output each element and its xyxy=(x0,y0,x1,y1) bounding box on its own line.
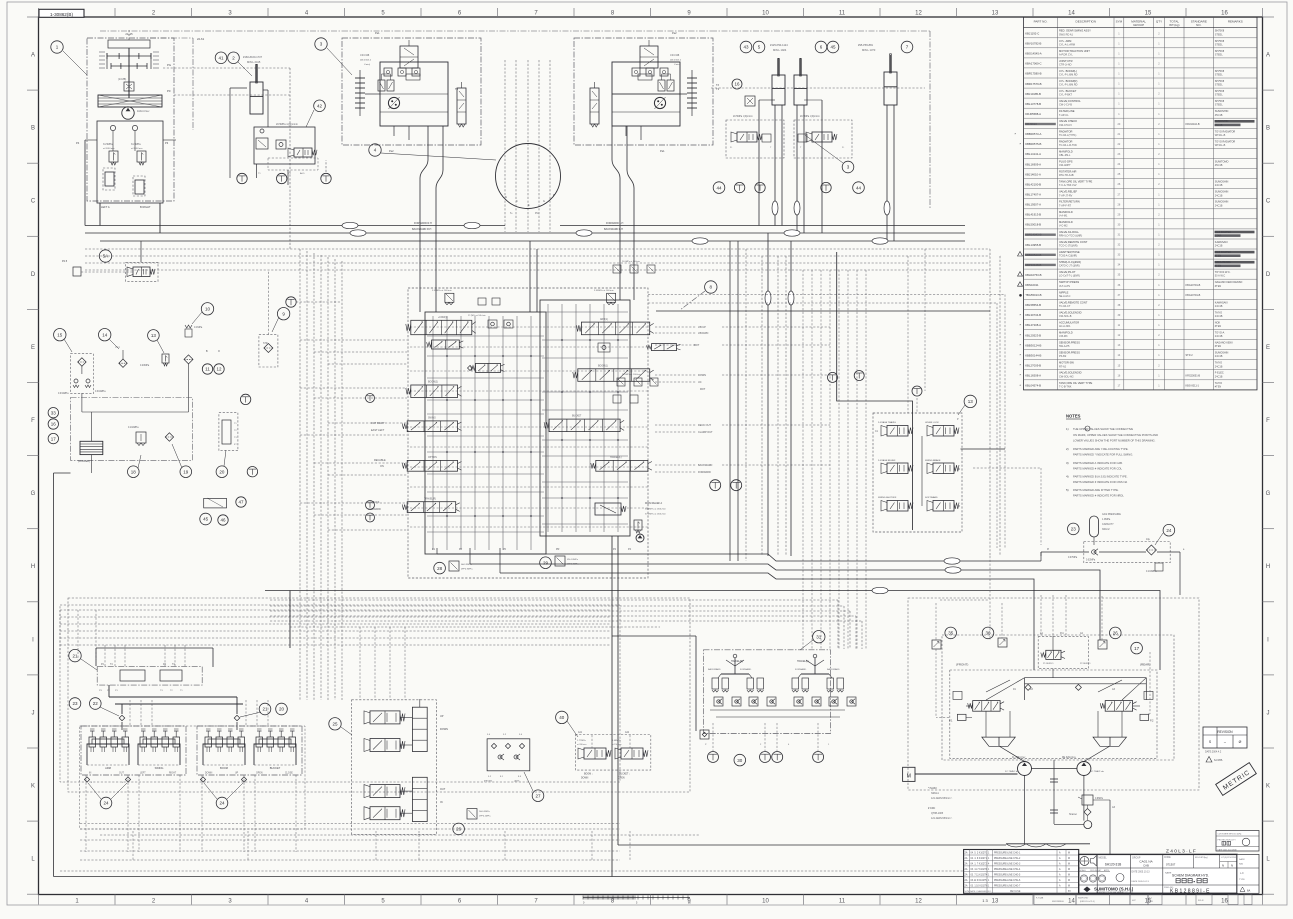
svg-text:D: D xyxy=(31,272,36,278)
svg-text:K B 1 2 8 8 9 I - E: K B 1 2 8 8 9 I - E xyxy=(1170,888,1210,894)
pump assembly balloons xyxy=(945,627,957,639)
svg-text:TBG55013-B: TBG55013-B xyxy=(1025,293,1041,297)
pilot reducing valve right xyxy=(607,293,616,302)
piston pumps xyxy=(1005,756,1104,829)
svg-text:SUMOSHIN: SUMOSHIN xyxy=(1215,191,1229,194)
svg-text:WT21L-B: WT21L-B xyxy=(1215,134,1226,137)
svg-text:KBL27009-B: KBL27009-B xyxy=(1025,364,1041,368)
svg-text:BACKWARD: BACKWARD xyxy=(708,668,721,671)
svg-text:BOOM(2): BOOM(2) xyxy=(428,382,438,384)
svg-text:OPTION: OPTION xyxy=(428,457,437,459)
svg-text:A-P.DR.CYL: A-P.DR.CYL xyxy=(1059,53,1073,56)
svg-text:TOYO RADIATOR: TOYO RADIATOR xyxy=(1215,130,1236,133)
load check right xyxy=(652,344,677,351)
svg-text:ARM(1): ARM(1) xyxy=(600,318,608,321)
balloon item 8 xyxy=(705,281,717,293)
svg-text:TCJ-R-CT: TCJ-R-CT xyxy=(1059,305,1071,308)
svg-text:#TEN: #TEN xyxy=(1215,345,1222,348)
svg-text:28: 28 xyxy=(437,566,443,571)
svg-text:(COOLER): (COOLER) xyxy=(78,460,90,463)
svg-text:KBJ14010-A: KBJ14010-A xyxy=(1025,172,1041,176)
svg-text:SUMOSHIN: SUMOSHIN xyxy=(1215,110,1229,113)
svg-text:18: 18 xyxy=(131,469,137,474)
svg-text:CYL-P-L-BM.RD: CYL-P-L-BM.RD xyxy=(1059,74,1078,77)
svg-text:45: 45 xyxy=(830,45,836,50)
svg-text:KBG10791-B: KBG10791-B xyxy=(1186,284,1201,287)
svg-text:SWG RD A1: SWG RD A1 xyxy=(1059,33,1074,36)
main control valve right housing xyxy=(540,300,630,536)
svg-text:DATE 2005.10.15(S/N): DATE 2005.10.15(S/N) xyxy=(1218,848,1238,851)
svg-text:SWING BRAKE: SWING BRAKE xyxy=(925,459,941,462)
svg-text:2-STAGE RELIEF: 2-STAGE RELIEF xyxy=(878,459,896,462)
svg-text:03. 7.11 K10274: 03. 7.11 K10274 xyxy=(971,875,988,877)
pilot dashed bus lines xyxy=(85,249,1000,556)
svg-text:KBL14955-B: KBL14955-B xyxy=(1025,243,1041,247)
spool travel right xyxy=(411,320,472,334)
svg-text:KBH10753-B: KBH10753-B xyxy=(1025,273,1041,277)
svg-text:VALVE;PILOT: VALVE;PILOT xyxy=(1059,270,1076,274)
svg-text:RADIATOR: RADIATOR xyxy=(1059,139,1072,143)
solenoid valve block item 13 xyxy=(837,252,1005,532)
svg-text:N: N xyxy=(1231,864,1233,868)
svg-text:SWITCH PRESS: SWITCH PRESS xyxy=(1059,280,1079,284)
pump control housing item1 xyxy=(51,30,176,209)
svg-text:RIGHT: RIGHT xyxy=(169,773,177,775)
svg-text:#125-P90-1124: #125-P90-1124 xyxy=(770,43,788,47)
svg-text:TOYO-A: TOYO-A xyxy=(1215,332,1225,335)
pressure switch item 26 xyxy=(467,809,477,819)
mid dashed verticals to travel pilot xyxy=(803,270,866,650)
svg-text:KBL30734-B: KBL30734-B xyxy=(1025,313,1041,317)
svg-text:CYL. BOOM(L): CYL. BOOM(L) xyxy=(1059,69,1077,73)
svg-text:10μ: 10μ xyxy=(1146,538,1151,541)
title block right edge cells xyxy=(1237,854,1259,893)
svg-text:3.55MPa at 10L/min: 3.55MPa at 10L/min xyxy=(432,289,452,292)
svg-text:SUMOSHIN: SUMOSHIN xyxy=(1215,352,1229,355)
svg-text:44: 44 xyxy=(856,185,862,190)
svg-text:17: 17 xyxy=(1134,646,1140,651)
svg-text:23: 23 xyxy=(1071,527,1077,532)
svg-text:O: O xyxy=(218,350,220,353)
svg-text:* ISUZU: * ISUZU xyxy=(928,787,937,790)
svg-text:#TEN: #TEN xyxy=(1215,325,1222,328)
svg-text:STEEL: STEEL xyxy=(1215,94,1224,97)
svg-text:DECK OUT: DECK OUT xyxy=(698,424,711,427)
spool option xyxy=(407,460,457,471)
svg-text:ON MARK, UPPER VALUES SHOW THE: ON MARK, UPPER VALUES SHOW THE CONNECTIV… xyxy=(1073,433,1158,437)
title block main xyxy=(1079,854,1237,894)
svg-text:04. 5. 2 K10270: 04. 5. 2 K10270 xyxy=(971,853,988,855)
svg-text:0N 4.0MPa: 0N 4.0MPa xyxy=(567,559,579,561)
svg-text:43: 43 xyxy=(743,45,749,50)
svg-text:K: K xyxy=(1266,784,1270,790)
svg-text:VALVE CHECK: VALVE CHECK xyxy=(1059,119,1077,123)
cylinder feed lines xyxy=(732,79,894,241)
svg-text:MIN.L 1924: MIN.L 1924 xyxy=(773,48,787,52)
accumulator item 23 xyxy=(1068,513,1122,537)
svg-text:WT21L-B: WT21L-B xyxy=(1215,144,1226,147)
svg-text:KBL04574-B: KBL04574-B xyxy=(1025,384,1041,388)
svg-text:CYL-P-L-BM.RD: CYL-P-L-BM.RD xyxy=(1059,84,1078,87)
svg-text:KBS-0011-1: KBS-0011-1 xyxy=(1186,384,1200,387)
pump delivery lines down to bus xyxy=(99,203,101,226)
svg-text:SUMOSHIN: SUMOSHIN xyxy=(1215,181,1229,184)
svg-text:KBG10791-B: KBG10791-B xyxy=(1186,294,1201,297)
spool swing xyxy=(407,421,457,432)
svg-text:(REAR): (REAR) xyxy=(1140,663,1150,667)
svg-text:UC: UC xyxy=(698,381,702,384)
spool travel left bank xyxy=(407,502,456,513)
svg-text:24C1B: 24C1B xyxy=(1215,365,1223,368)
svg-text:Pe1: Pe1 xyxy=(660,149,665,153)
svg-text:KBN10011: KBN10011 xyxy=(1025,283,1039,287)
svg-text:PARTS MARKED # INDICATE FOR CO: PARTS MARKED # INDICATE FOR COL xyxy=(1073,467,1122,471)
pilot valve cluster boom bucket xyxy=(197,726,302,852)
svg-text:(13.88): (13.88) xyxy=(118,77,126,81)
svg-text:2A: 2A xyxy=(965,884,968,887)
svg-text:13: 13 xyxy=(968,399,974,404)
svg-text:SH120-31B: SH120-31B xyxy=(1105,863,1121,867)
pump linkage details xyxy=(966,663,1146,762)
svg-text:VALVE;SOLENOID: VALVE;SOLENOID xyxy=(1059,310,1082,314)
pump assembly mid dashed box xyxy=(942,635,1174,760)
svg-text:E: E xyxy=(31,345,35,351)
svg-text:BUCKET: BUCKET xyxy=(270,766,281,770)
svg-text:15: 15 xyxy=(1145,11,1152,17)
svg-text:21: 21 xyxy=(72,653,78,658)
svg-text:M: M xyxy=(907,774,911,780)
svg-text:B: B xyxy=(1266,126,1270,132)
svg-text:PG: PG xyxy=(535,212,539,215)
svg-text:NAGANO KEIKI DENSO: NAGANO KEIKI DENSO xyxy=(1215,281,1243,284)
svg-text:04. 4. 6 K10271: 04. 4. 6 K10271 xyxy=(971,858,988,860)
svg-text:11: 11 xyxy=(205,367,210,372)
svg-text:A: A xyxy=(1266,53,1270,59)
svg-text:ROTATER;AIR: ROTATER;AIR xyxy=(1059,170,1076,174)
svg-text:CW-SOL-NG: CW-SOL-NG xyxy=(1059,375,1074,378)
svg-text:VALVE;RELIEF: VALVE;RELIEF xyxy=(1059,190,1077,194)
svg-text:i=43.348: i=43.348 xyxy=(360,54,370,57)
svg-text:42: 42 xyxy=(317,104,323,109)
valve block internal channels right xyxy=(542,304,628,532)
svg-text:DOWN: DOWN xyxy=(440,728,448,731)
gauges below valve block xyxy=(710,480,721,491)
svg-text:12: 12 xyxy=(915,11,922,17)
svg-text:#TEN: #TEN xyxy=(1215,285,1222,288)
svg-text:P0: P0 xyxy=(167,89,171,93)
svg-text:(KB12-10+C2.6): (KB12-10+C2.6) xyxy=(1080,901,1095,903)
svg-text:V-A-M1: V-A-M1 xyxy=(1059,214,1068,217)
svg-text:31.5MPa: 31.5MPa xyxy=(103,143,113,146)
svg-text:2A: 2A xyxy=(965,852,968,855)
svg-text:STEEL: STEEL xyxy=(1215,33,1224,36)
svg-text:P₁: P₁ xyxy=(730,147,732,149)
port test boxes 28 29 xyxy=(434,556,579,574)
svg-text:#95-P65-881: #95-P65-881 xyxy=(858,43,874,47)
svg-text:CAPACITY: CAPACITY xyxy=(1102,523,1114,526)
gauge port top xyxy=(286,297,296,307)
svg-text:KRS20051-B: KRS20051-B xyxy=(1186,374,1201,377)
svg-text:DATE:2004.4.2: DATE:2004.4.2 xyxy=(1205,751,1222,754)
bottom long dashed tails xyxy=(80,824,630,861)
svg-text:30: 30 xyxy=(737,758,743,763)
svg-text:DATE 2005.10.13: DATE 2005.10.13 xyxy=(1132,880,1150,883)
main control valve left housing xyxy=(425,312,546,554)
svg-text:TRAVEL(L): TRAVEL(L) xyxy=(610,456,622,459)
svg-text:FIG.N: FIG.N xyxy=(1198,900,1204,902)
svg-text:SH75X8: SH75X8 xyxy=(1215,30,1225,33)
svg-text:BUCKET ↓: BUCKET ↓ xyxy=(619,773,630,776)
svg-text:KBL14141-A: KBL14141-A xyxy=(1025,152,1041,156)
svg-text:SCALE: SCALE xyxy=(1080,869,1087,872)
svg-text:10: 10 xyxy=(762,899,769,905)
svg-text:DOWN: DOWN xyxy=(698,374,706,377)
svg-text:A6.5: A6.5 xyxy=(300,172,305,175)
svg-text:0.034MPa: 0.034MPa xyxy=(58,393,69,395)
manifold item 20 xyxy=(216,413,238,478)
svg-text:11: 11 xyxy=(839,899,846,905)
svg-text:NIPPLE: NIPPLE xyxy=(1059,290,1069,294)
svg-text:SH75X8: SH75X8 xyxy=(1215,100,1225,103)
revision stamp xyxy=(1203,727,1247,762)
svg-text:JIB DWN: JIB DWN xyxy=(698,332,708,335)
svg-text:CONSTRUCTION MACHINERY CO.,LTD: CONSTRUCTION MACHINERY CO.,LTD xyxy=(1096,891,1133,894)
svg-text:U.T.(S)12 NOTED: U.T.(S)12 NOTED xyxy=(1221,857,1237,859)
holding valve block item 42 xyxy=(254,100,325,175)
svg-text:MAIN RELIEF A: MAIN RELIEF A xyxy=(645,502,663,505)
svg-text:EAST LEFT: EAST LEFT xyxy=(371,429,385,432)
svg-text:20.5MPa at 110L/min: 20.5MPa at 110L/min xyxy=(622,373,641,376)
svg-text:OUT RIGHT: OUT RIGHT xyxy=(371,422,385,425)
svg-text:25: 25 xyxy=(332,722,338,727)
svg-text:SWING SHUTOFF: SWING SHUTOFF xyxy=(878,497,897,499)
svg-text:RECABLE: RECABLE xyxy=(374,459,386,462)
svg-text:SENSOR;PRESS: SENSOR;PRESS xyxy=(1059,341,1080,345)
valve block dashed pilot crossings xyxy=(410,327,648,527)
svg-text:WT.(kg): WT.(kg) xyxy=(1169,23,1179,27)
svg-text:M: M xyxy=(1068,864,1070,866)
svg-text:KBL19507-A: KBL19507-A xyxy=(1025,203,1041,207)
svg-text:1A 0.5MPa: 1A 0.5MPa xyxy=(479,810,490,813)
svg-text:KBV10782-B: KBV10782-B xyxy=(1025,42,1041,46)
svg-text:at 20L/min: at 20L/min xyxy=(577,743,586,746)
svg-text:20: 20 xyxy=(279,707,285,712)
svg-text:KBL16909-A: KBL16909-A xyxy=(1025,162,1041,166)
svg-text:F-ELEC: F-ELEC xyxy=(1215,372,1224,375)
svg-text:2A: 2A xyxy=(965,863,968,866)
svg-text:×1.1: ×1.1 xyxy=(115,346,120,349)
svg-text:PR: PR xyxy=(556,548,560,551)
svg-text:THE UPPER VALUES SHOW THE CONN: THE UPPER VALUES SHOW THE CONNECTIVE xyxy=(1073,427,1133,431)
svg-text:1FF0.2MPa: 1FF0.2MPa xyxy=(479,816,491,818)
svg-text:PRESSURE-LINE CHG-2: PRESSURE-LINE CHG-2 xyxy=(994,858,1021,860)
svg-text:0.304MPa: 0.304MPa xyxy=(95,391,106,393)
svg-text:27 (MPa at 10L/min: 27 (MPa at 10L/min xyxy=(468,314,485,317)
svg-text:CYL. ARM: CYL. ARM xyxy=(1059,39,1071,43)
svg-text:4): 4) xyxy=(1066,475,1069,479)
pump lines into valve block xyxy=(420,226,634,313)
svg-text:ARM: ARM xyxy=(105,766,111,770)
drawing number box top-left xyxy=(39,9,84,17)
svg-text:TOYO R.W.C.: TOYO R.W.C. xyxy=(1215,271,1231,274)
svg-text:PG: PG xyxy=(167,63,171,67)
svg-text:QT88-1005: QT88-1005 xyxy=(931,812,944,815)
svg-text:LEVER LOCK: LEVER LOCK xyxy=(925,422,939,424)
valve block port labels xyxy=(432,548,632,551)
svg-text:2A: 2A xyxy=(965,879,968,882)
svg-text:REMARKS: REMARKS xyxy=(1228,20,1243,24)
svg-text:2A: 2A xyxy=(965,874,968,877)
function labels right of valve block xyxy=(694,326,713,474)
spool bucket right bank xyxy=(549,419,620,432)
svg-text:04. 1. 7 K10272: 04. 1. 7 K10272 xyxy=(971,864,988,866)
svg-text:F: F xyxy=(31,418,35,424)
svg-text:A: A xyxy=(31,53,35,59)
svg-text:44: 44 xyxy=(716,185,722,190)
svg-text:STEEL: STEEL xyxy=(1215,104,1224,107)
spool boom1 right bank xyxy=(578,369,650,382)
svg-text:DOWN: DOWN xyxy=(581,778,589,780)
svg-text:P.2: P.2 xyxy=(1150,720,1154,723)
svg-text:STEEL: STEEL xyxy=(1215,53,1224,56)
svg-text:24: 24 xyxy=(1166,528,1172,533)
svg-text:CLOSE: CLOSE xyxy=(285,773,293,775)
svg-text:1/8 D.SHEET: 1/8 D.SHEET xyxy=(1090,870,1102,872)
svg-text:MIN.L 1373: MIN.L 1373 xyxy=(862,48,876,52)
bottom dashed distribution lines xyxy=(54,610,1111,877)
svg-text:41: 41 xyxy=(218,56,224,61)
svg-text:STEEL: STEEL xyxy=(1215,74,1224,77)
svg-text:24C1B: 24C1B xyxy=(1215,335,1223,338)
svg-text:FORWARD: FORWARD xyxy=(740,668,752,671)
svg-text:STD 2: STD 2 xyxy=(1186,354,1194,357)
svg-text:24C1B: 24C1B xyxy=(1215,315,1223,318)
svg-text:ROT: ROT xyxy=(700,388,706,391)
pilot supply lines to clusters xyxy=(96,591,290,731)
svg-text:BACKWARD R.H: BACKWARD R.H xyxy=(412,228,432,231)
svg-text:ROT: ROT xyxy=(694,344,700,347)
svg-text:2A: 2A xyxy=(965,868,968,871)
svg-text:24C1B: 24C1B xyxy=(1215,305,1223,308)
svg-text:N/A: N/A xyxy=(1239,863,1243,866)
svg-text:C: C xyxy=(31,199,36,205)
lower machine dashed enclosure inner xyxy=(60,605,620,782)
svg-text:PARTS MARKED B (A.S.E) INDICAT: PARTS MARKED B (A.S.E) INDICATE TYPE. xyxy=(1073,475,1128,479)
breather item 45 xyxy=(200,497,246,525)
pump assembly outer dashed box xyxy=(908,598,1199,790)
svg-text:M: M xyxy=(1068,885,1070,887)
svg-text:0.20MPa: 0.20MPa xyxy=(140,365,150,367)
svg-text:(66.6/103.2: (66.6/103.2 xyxy=(670,60,682,62)
svg-text:KBB00573-A: KBB00573-A xyxy=(1025,132,1041,136)
svg-text:A42: A42 xyxy=(625,731,630,734)
solenoid block 25 feeders xyxy=(360,627,405,700)
svg-text:0.07MPa: 0.07MPa xyxy=(1068,557,1078,559)
svg-text:26: 26 xyxy=(1113,631,1119,636)
graphic scale bar xyxy=(583,896,691,905)
svg-text:PRESSURE-LINE CHG-4: PRESSURE-LINE CHG-4 xyxy=(994,869,1021,871)
solenoid block item 25 xyxy=(329,699,448,834)
travel motor right item 3 xyxy=(574,38,713,145)
valve item 13 small xyxy=(140,330,169,367)
svg-text:G: G xyxy=(31,491,36,497)
svg-text:40: 40 xyxy=(559,715,565,720)
svg-text:NOTES: NOTES xyxy=(1066,414,1081,419)
svg-text:SH75X8: SH75X8 xyxy=(1215,50,1225,53)
svg-text:i=43.348: i=43.348 xyxy=(670,54,680,57)
svg-text:B RIGHT: B RIGHT xyxy=(140,205,151,209)
svg-text:CATO-C-JT (&NR): CATO-C-JT (&NR) xyxy=(1059,265,1080,268)
svg-text:Pe1: Pe1 xyxy=(375,31,380,35)
filter assembly item 15 xyxy=(54,329,107,413)
svg-text:TAIYO: TAIYO xyxy=(1215,311,1222,314)
svg-text:OUT: OUT xyxy=(119,773,124,775)
svg-text:RE.320cc/rev: RE.320cc/rev xyxy=(1062,756,1077,759)
svg-text:SCHEM DIAGRAM:HYD.: SCHEM DIAGRAM:HYD. xyxy=(1172,874,1209,878)
svg-text:T-AP-F-RT: T-AP-F-RT xyxy=(1059,204,1072,207)
metric stamp xyxy=(1216,763,1257,796)
svg-text:KBL13778-B: KBL13778-B xyxy=(1025,102,1041,106)
shuttle valve item 27 xyxy=(484,734,544,802)
svg-text:121.4kW/2153min⁻¹: 121.4kW/2153min⁻¹ xyxy=(931,817,953,820)
svg-text:KBR17579-B: KBR17579-B xyxy=(1025,82,1041,86)
svg-text:33: 33 xyxy=(51,410,57,415)
svg-text:KBB30124-B: KBB30124-B xyxy=(1025,343,1041,347)
svg-text:QTY: QTY xyxy=(1156,20,1162,24)
svg-text:LEFT: LEFT xyxy=(140,773,146,775)
svg-text:16: 16 xyxy=(1221,899,1228,905)
svg-text:Strainer: Strainer xyxy=(1069,813,1077,816)
svg-text:OUT: OUT xyxy=(440,788,446,791)
svg-text:45: 45 xyxy=(203,517,209,522)
svg-text:03. 1.10 K10276: 03. 1.10 K10276 xyxy=(971,885,989,887)
svg-text:KRJ05588-A: KRJ05588-A xyxy=(1025,112,1041,116)
svg-text:KBR17580-B: KBR17580-B xyxy=(1025,72,1041,76)
svg-text:0.102MPa: 0.102MPa xyxy=(128,427,139,429)
svg-text:DOWN: DOWN xyxy=(205,773,213,775)
gauge ports mid-left xyxy=(240,394,250,404)
svg-text:KAWASAKI: KAWASAKI xyxy=(1215,241,1228,244)
svg-text:45C1B: 45C1B xyxy=(1215,114,1223,117)
pump assembly inner dashed box xyxy=(950,670,1157,758)
svg-text:0A 3.9MPa: 0A 3.9MPa xyxy=(461,563,472,566)
svg-text:CODE: CODE xyxy=(1164,857,1171,859)
svg-text:CYL-P-BKT: CYL-P-BKT xyxy=(1059,94,1073,97)
pilot valve cluster arm swing xyxy=(81,726,186,852)
svg-text:P₁: P₁ xyxy=(842,147,844,149)
svg-text:KBL47208-A: KBL47208-A xyxy=(1025,323,1041,327)
svg-text:071307: 071307 xyxy=(1166,863,1176,867)
svg-text:(FRONT): (FRONT) xyxy=(484,781,493,783)
svg-text:24: 24 xyxy=(219,801,225,806)
svg-text:F: F xyxy=(1266,418,1270,424)
svg-text:34.3MPa at 130L/min: 34.3MPa at 130L/min xyxy=(645,508,667,511)
svg-text:UP: UP xyxy=(235,773,239,775)
svg-text:16: 16 xyxy=(734,82,740,87)
svg-text:CLAMP OUT: CLAMP OUT xyxy=(698,431,713,434)
svg-text:14: 14 xyxy=(102,332,108,337)
svg-text:G: G xyxy=(1266,491,1271,497)
svg-text:13: 13 xyxy=(151,333,157,338)
svg-text:GAS PRESSURE: GAS PRESSURE xyxy=(1102,513,1121,516)
svg-text:SYM: SYM xyxy=(1116,20,1123,24)
svg-text:L/min): L/min) xyxy=(364,64,370,66)
main control valve outer dashed box xyxy=(408,288,648,578)
svg-text:NAME: NAME xyxy=(1165,872,1172,875)
svg-text:KBG14545-A: KBG14545-A xyxy=(1025,52,1042,56)
svg-text:SH75X8: SH75X8 xyxy=(1215,70,1225,73)
svg-text:31: 31 xyxy=(816,634,822,639)
